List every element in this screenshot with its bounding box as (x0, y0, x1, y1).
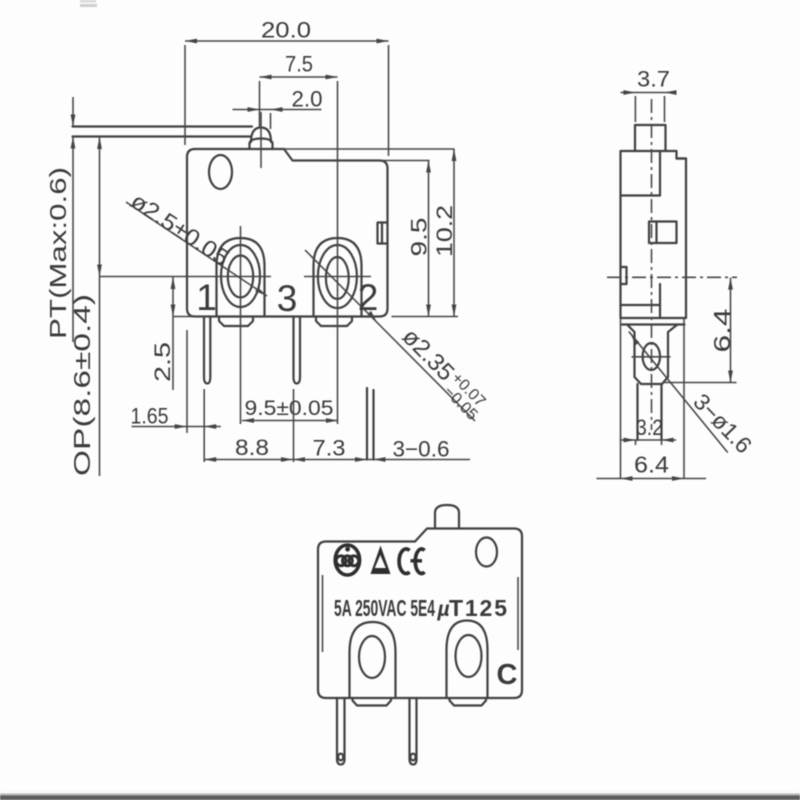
dim PT(Max:0.6) (45, 97, 75, 342)
dim 3.2 (620, 415, 676, 445)
marking plunger (435, 505, 459, 529)
terminal number 1 (196, 277, 217, 318)
dim 2.0 (233, 87, 323, 130)
dim 7.5 (260, 52, 338, 129)
hole centerline vertical left (240, 226, 242, 424)
svg-text:C: C (497, 659, 518, 691)
dim 9.5+-0.05 (242, 397, 338, 423)
dim 6.4 (bottom) (597, 452, 707, 481)
plunger centerline (260, 112, 262, 168)
terminal 2 tab (316, 317, 352, 327)
side inner step upper (621, 151, 661, 196)
marking body outline (318, 529, 522, 699)
label dia 2.5+-0.05 with leader (126, 187, 267, 296)
marking mounting hole (476, 538, 497, 567)
marking pin right (410, 698, 417, 765)
pin 1 (204, 317, 210, 384)
svg-text:µ: µ (437, 598, 450, 621)
side column edges (621, 318, 685, 478)
CE mark (399, 549, 424, 574)
terminal number 2 (358, 277, 379, 318)
side inner step lower (621, 284, 661, 318)
svg-text:2.0: 2.0 (292, 87, 323, 112)
label 3-dia1.6 with leader (629, 332, 757, 459)
mounting hole top-left (209, 155, 232, 189)
svg-text:OP(8.6±0.4): OP(8.6±0.4) (69, 294, 95, 476)
svg-text:5A 250VAC 5E4: 5A 250VAC 5E4 (334, 595, 435, 621)
side vertical centerline (651, 99, 653, 430)
svg-text:2.5: 2.5 (150, 342, 175, 382)
plunger button (front view) (250, 128, 273, 150)
svg-text:7.5: 7.5 (285, 52, 313, 77)
dim OP(8.6+-0.4) (69, 137, 102, 476)
svg-text:1: 1 (196, 277, 217, 318)
svg-text:3−0.6: 3−0.6 (393, 437, 450, 462)
dim 6.4 (right side) (665, 278, 737, 383)
marking hole left (359, 636, 385, 678)
pin 2 broken lines (367, 388, 374, 460)
svg-text:7.3: 7.3 (313, 436, 346, 461)
svg-text:6.4: 6.4 (709, 308, 735, 352)
marking tab right (450, 698, 487, 706)
side blade hole (643, 343, 660, 370)
terminal 1 rings (221, 245, 260, 307)
side lower blade (638, 384, 662, 440)
svg-text:10.2: 10.2 (432, 205, 457, 257)
switch body outline (187, 149, 388, 317)
dim chain 8.8 / 7.3 / 3-0.6 (204, 389, 470, 462)
side horizontal centerline dash-dot (607, 276, 737, 278)
svg-text:3.7: 3.7 (637, 67, 670, 92)
terminal 1 boss (217, 238, 265, 317)
lever arm (73, 127, 253, 137)
dim 20.0 (185, 18, 389, 157)
side hole centerline horizontal (632, 356, 671, 358)
svg-text:3: 3 (277, 278, 298, 319)
rating text 5A 250VAC 5E4 u T125 (334, 595, 509, 621)
photo crop smudge top-left (80, 0, 97, 7)
marking hole right (456, 635, 482, 677)
mold parting line left (322, 575, 324, 652)
dim 1.65 (131, 330, 221, 462)
marking boss right (447, 621, 488, 699)
CCC logo (335, 545, 359, 575)
marking boss left (350, 622, 396, 698)
terminal number 3 (277, 278, 298, 319)
svg-text:9.5: 9.5 (407, 218, 432, 257)
dim 3.7 (621, 67, 677, 123)
letter C (497, 659, 518, 691)
bottom photo edge band (0, 791, 800, 800)
hole centerline horizontal (99, 276, 371, 278)
side plunger (635, 125, 666, 151)
side body outline (621, 151, 687, 318)
svg-text:1.65: 1.65 (131, 404, 169, 429)
terminal 2 rings (318, 245, 357, 308)
terminal 2 boss (314, 238, 362, 317)
side left edge notch (621, 267, 627, 284)
side terminal blade (627, 325, 678, 385)
dim 9.5 (right vertical) (293, 161, 432, 317)
marking tab left (353, 698, 392, 706)
svg-text:PT(Max:0.6): PT(Max:0.6) (45, 167, 71, 339)
side latch window (649, 222, 677, 244)
svg-text:T125: T125 (449, 595, 509, 621)
latch window on right edge (378, 223, 388, 244)
label dia 2.35 +0.07 -0.05 with leader (305, 250, 492, 424)
svg-text:6.4: 6.4 (634, 452, 669, 478)
dim 10.2 (right vertical) (273, 149, 458, 317)
marking pin left (337, 698, 345, 765)
pin 3 (294, 317, 301, 384)
mold parting line right (517, 577, 519, 650)
hole centerline vertical right (337, 81, 339, 424)
svg-text:8.8: 8.8 (235, 435, 269, 460)
dim 2.5 (pin row offset) (150, 277, 210, 390)
svg-text:2: 2 (358, 277, 379, 318)
triangle mark (371, 546, 391, 575)
side base band (622, 323, 685, 325)
svg-text:20.0: 20.0 (261, 18, 311, 43)
svg-text:9.5±0.05: 9.5±0.05 (245, 397, 334, 420)
terminal 1 tab (219, 317, 253, 327)
svg-text:3.2: 3.2 (636, 415, 663, 440)
